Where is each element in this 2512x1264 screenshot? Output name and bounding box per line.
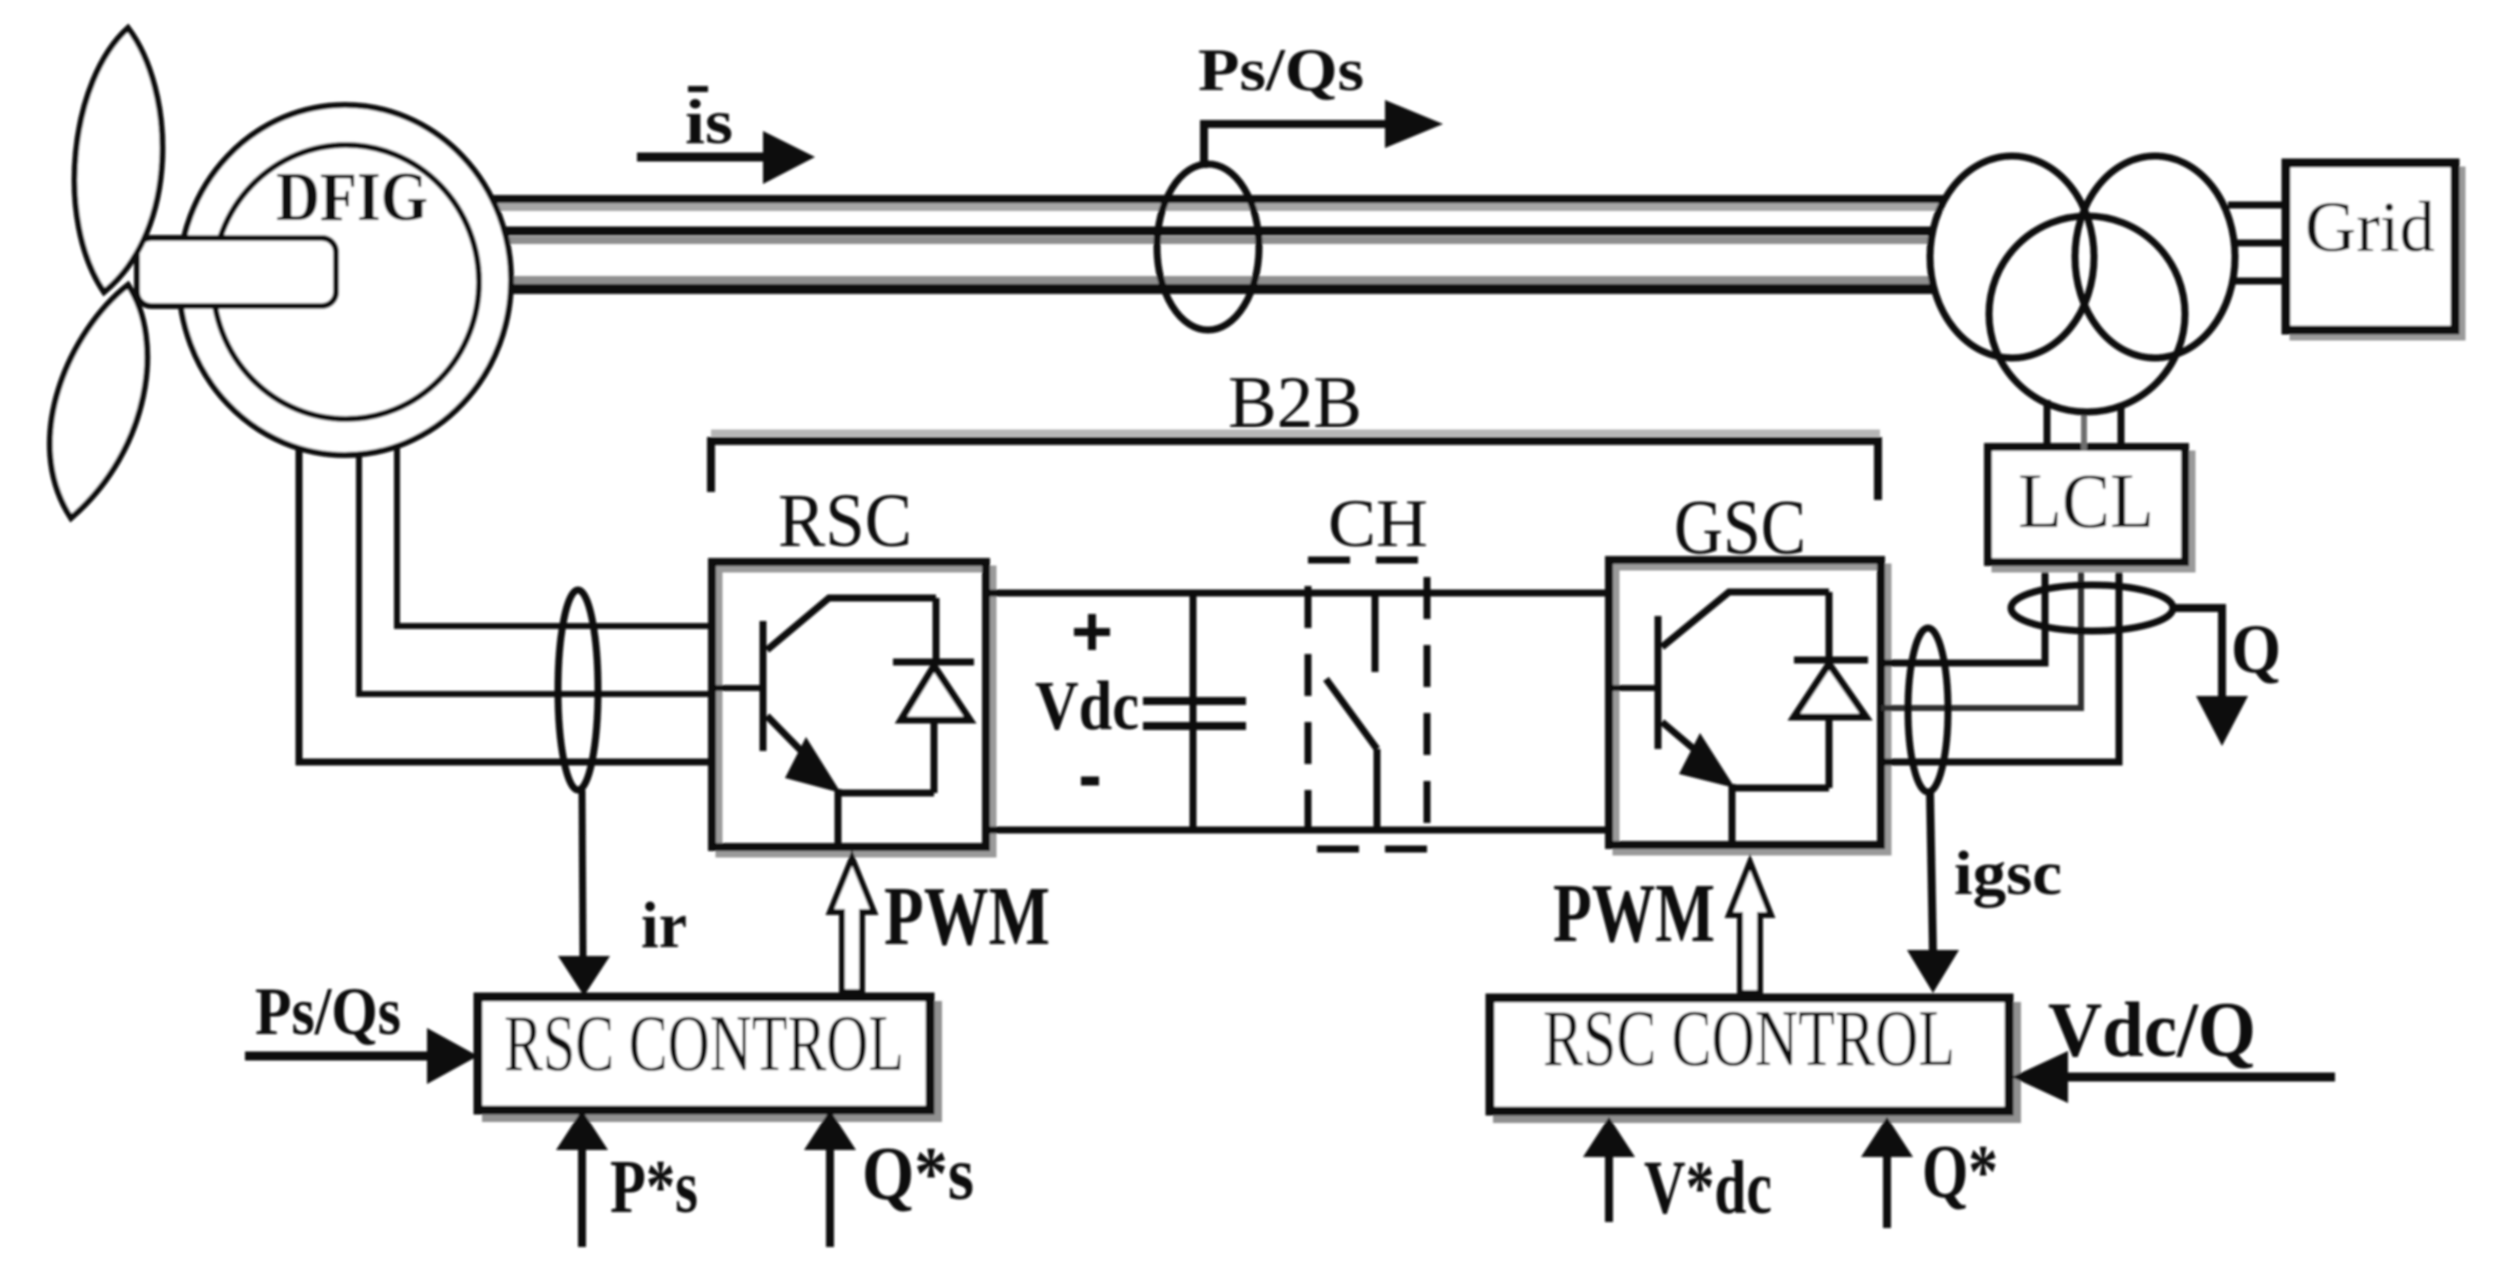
control box RSC CONTROL <box>478 997 930 1110</box>
svg-text:Q*s: Q*s <box>862 1132 974 1216</box>
arrow is (stator current) <box>637 153 770 162</box>
turbine hub shaft <box>137 238 336 306</box>
wire GSC diode bottom <box>1826 717 1833 788</box>
current sensor stator (ellipse) <box>1157 164 1259 330</box>
diode GSC cathode bar <box>1794 657 1868 664</box>
svg-text:RSC: RSC <box>778 479 912 563</box>
arrowhead GSC emitter <box>1679 733 1735 788</box>
arrow PWM left (hollow block arrow) <box>830 858 874 992</box>
wire Ps/Qs input <box>245 1052 432 1061</box>
wire Q measurement tap <box>2173 608 2222 700</box>
svg-text:Grid: Grid <box>2305 187 2435 267</box>
label plus sign <box>1074 614 1110 650</box>
wire transformer to grid 2 <box>2233 240 2290 247</box>
svg-text:Vdc/Q: Vdc/Q <box>2048 986 2256 1073</box>
arrowhead Ps/Qs input (right) <box>427 1028 478 1084</box>
wire Ps/Qs measurement tap <box>1204 124 1392 168</box>
svg-text:Q: Q <box>2231 611 2281 688</box>
svg-text:igsc: igsc <box>1954 840 2062 908</box>
diode GSC triangle <box>1794 664 1866 717</box>
arrowhead Q* (up) <box>1861 1117 1913 1157</box>
wire Q*s input <box>826 1148 834 1247</box>
diode RSC triangle <box>901 666 970 720</box>
svg-text:V*dc: V*dc <box>1644 1146 1772 1230</box>
wire GSC collector <box>1662 592 1829 647</box>
switch chopper top contact <box>1372 594 1379 672</box>
transistor GSC emitter with arrow <box>1662 722 1714 766</box>
switch chopper blade <box>1326 679 1377 749</box>
wire stator bus phase C <box>511 284 1933 294</box>
svg-text:Ps/Qs: Ps/Qs <box>1198 37 1364 103</box>
arrowhead RSC emitter <box>785 737 841 793</box>
voltage sensor LCL output (flat ellipse) <box>2011 585 2173 631</box>
wire transformer to grid 1 <box>2228 202 2290 209</box>
wire transformer to grid 3 <box>2235 278 2290 285</box>
svg-text:Q*: Q* <box>1922 1130 1998 1214</box>
transformer winding left circle <box>1930 156 2094 358</box>
svg-text:Vdc: Vdc <box>1035 668 1139 745</box>
arrowhead Ps/Qs (right) <box>1385 100 1443 148</box>
box Grid shadow <box>2293 170 2462 337</box>
wire GSC output phase 3 <box>1881 447 2119 762</box>
arrowhead P*s (up) <box>556 1110 608 1150</box>
wire GSC emitter rail <box>1732 785 1829 792</box>
wire stator bus phase B <box>503 227 1932 236</box>
wire RSC gate lead <box>714 685 763 691</box>
converter box RSC <box>712 562 986 847</box>
wire Vdc/Q input <box>2062 1073 2335 1082</box>
wire GSC gate lead <box>1611 685 1658 691</box>
wire ir measurement <box>582 790 583 958</box>
control box RSC CONTROL (shadow) <box>486 1005 938 1118</box>
turbine blade upper <box>75 28 163 292</box>
wire rotor phase 2 (vertical from DFIG) <box>359 430 712 694</box>
switch chopper bottom contact <box>1374 749 1381 830</box>
arrowhead Q*s (up) <box>804 1110 856 1150</box>
transistor RSC IGBT gate bar <box>760 621 767 751</box>
capacitor plate top <box>1143 697 1246 705</box>
converter box GSC <box>1609 560 1881 845</box>
wire RSC collector <box>767 598 936 650</box>
current sensor igsc (ellipse) <box>1908 628 1948 792</box>
wire RSC diode top <box>933 598 940 662</box>
diode RSC cathode bar <box>893 659 974 666</box>
wire V*dc input <box>1605 1155 1613 1222</box>
svg-text:LCL: LCL <box>2018 457 2154 544</box>
svg-text:P*s: P*s <box>610 1145 698 1229</box>
filter box LCL shadow <box>1995 454 2192 569</box>
wire RSC emitter rail <box>838 790 934 797</box>
wire stator bus phase B (gray fringe) <box>503 236 1932 244</box>
bracket B2B <box>711 441 1878 500</box>
svg-text:CH: CH <box>1328 485 1428 561</box>
chopper CH dashed box <box>1308 560 1427 849</box>
svg-text:PWM: PWM <box>1553 867 1715 960</box>
label is overbar <box>688 86 708 92</box>
wire rotor phase 3 (vertical from DFIG) <box>299 430 712 762</box>
svg-text:ir: ir <box>641 889 687 962</box>
svg-text:is: is <box>685 86 733 157</box>
current sensor rotor ir (ellipse) <box>558 590 598 790</box>
wire P*s input <box>578 1148 586 1247</box>
capacitor plate bottom <box>1143 722 1246 730</box>
wire GSC output phase 2 (gray) <box>1881 451 2081 708</box>
wire DC link top rail <box>986 590 1609 597</box>
svg-text:GSC: GSC <box>1674 483 1806 570</box>
wire LCL to transformer 3 <box>2118 404 2125 451</box>
arrowhead igsc (down) <box>1907 950 1959 993</box>
arrowhead Vdc/Q (left) <box>2012 1051 2068 1103</box>
converter box RSC shadow <box>719 569 993 854</box>
wire stator bus phase A (gray fringe) <box>489 203 1944 211</box>
svg-text:PWM: PWM <box>884 870 1050 963</box>
box Grid <box>2286 163 2455 330</box>
wire GSC emitter to box bottom <box>1729 784 1736 845</box>
wire stator bus phase C (gray fringe) <box>511 276 1933 284</box>
transformer winding bottom circle <box>1989 216 2185 412</box>
capacitor DC link vertical wire <box>1190 593 1197 830</box>
wire LCL to transformer 1 <box>2044 400 2051 451</box>
converter box GSC shadow <box>1616 567 1888 852</box>
svg-text:RSC CONTROL: RSC CONTROL <box>504 1000 904 1088</box>
wire GSC diode top <box>1826 592 1833 660</box>
transformer winding right circle <box>2075 156 2235 358</box>
wire GSC output phase 1 <box>1881 447 2045 663</box>
generator DFIG inner circle <box>213 145 479 419</box>
bracket B2B (gray fringe) <box>711 430 1880 437</box>
arrowhead V*dc (up) <box>1583 1117 1635 1157</box>
wire rotor phase 1 (vertical from DFIG) <box>397 430 712 626</box>
arrowhead Q (down) <box>2196 696 2248 746</box>
svg-text:DFIG: DFIG <box>276 159 428 236</box>
transistor GSC IGBT gate bar <box>1655 616 1662 749</box>
transistor RSC emitter with arrow <box>767 716 820 770</box>
wire RSC emitter to box bottom <box>835 789 842 847</box>
control box GSC CONTROL (shadow) <box>1497 1006 2017 1119</box>
generator DFIG outer circle <box>179 105 511 455</box>
wire igsc measurement <box>1930 792 1933 955</box>
wire stator bus phase A <box>489 195 1944 203</box>
wire Q* input <box>1883 1155 1891 1228</box>
svg-text:RSC CONTROL: RSC CONTROL <box>1543 995 1955 1083</box>
svg-text:Ps/Qs: Ps/Qs <box>255 973 401 1049</box>
turbine blade lower <box>50 285 147 518</box>
wire RSC diode bottom <box>931 720 938 793</box>
control box GSC CONTROL <box>1490 998 2009 1111</box>
arrowhead ir (down) <box>558 956 610 996</box>
filter box LCL <box>1988 447 2185 562</box>
wire DC link bottom rail <box>986 827 1609 834</box>
svg-text:B2B: B2B <box>1228 362 1362 444</box>
label minus sign <box>1081 777 1099 786</box>
arrowhead is <box>763 131 815 184</box>
wire LCL to transformer 2 (gray) <box>2081 410 2087 451</box>
arrow PWM right (hollow block arrow) <box>1729 862 1771 993</box>
